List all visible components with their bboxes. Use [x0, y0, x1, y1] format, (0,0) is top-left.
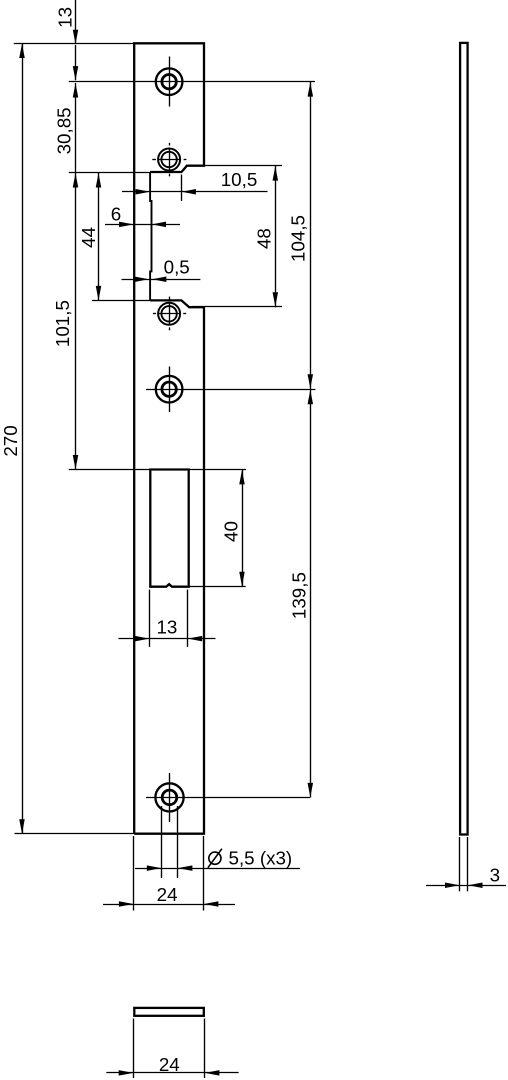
hole H5 horizontal centerline / dimension reference [146, 797, 310, 799]
svg-text:24: 24 [157, 884, 178, 905]
svg-text:13: 13 [54, 7, 75, 28]
svg-text:3: 3 [490, 865, 500, 886]
dimension 139,5: hole H4 to hole H5 [308, 390, 314, 405]
svg-text:6: 6 [111, 203, 121, 224]
svg-text:13: 13 [156, 617, 177, 638]
side view plate bar [460, 43, 468, 835]
dimension 270: overall plate length [19, 44, 25, 59]
hole H1 horizontal centerline / dimension reference [69, 81, 315, 83]
svg-text:139,5: 139,5 [289, 572, 310, 619]
svg-text:101,5: 101,5 [52, 300, 73, 347]
plate lower right outline with notch [134, 300, 204, 833]
dimension 13 top: plate top edge to hole H1 center [14, 43, 134, 45]
svg-text:40: 40 [221, 521, 242, 542]
dimension 44: lip cut height [96, 173, 102, 188]
svg-text:48: 48 [254, 228, 275, 249]
dimension 10,5: lip line to notch reference [122, 191, 268, 193]
svg-text:10,5: 10,5 [221, 169, 258, 190]
hole H4 vertical centerline [169, 367, 171, 413]
hole H1 countersunk top [156, 68, 183, 95]
latch opening [150, 470, 188, 587]
hole H1 vertical centerline [169, 57, 171, 107]
dimension 101,5: cut top edge to latch opening top [69, 172, 150, 174]
dimension 0,5: lip step [122, 279, 201, 281]
dimension 40: latch opening height [189, 469, 246, 471]
strike plate front view outline [134, 43, 204, 833]
hole H3 centerlines [158, 313, 182, 315]
svg-text:0,5: 0,5 [164, 256, 190, 277]
hole H2 [158, 149, 180, 171]
svg-text:44: 44 [78, 227, 99, 248]
hole H2 centerlines [158, 159, 182, 161]
dimension diameter 5,5 x3: screw holes [161, 806, 163, 878]
hole H4 countersunk middle [156, 376, 183, 403]
dimension 13: latch opening width [149, 590, 151, 647]
lip fold line with 0,5 jog [150, 172, 151, 300]
dimension 30,85: hole H1 center to lip cut top edge [73, 83, 79, 98]
dimension 6: plate edge to lip line [105, 224, 180, 226]
svg-text:5,5 (x3): 5,5 (x3) [229, 848, 293, 869]
dimension 24: plate width front view [133, 836, 135, 911]
svg-text:104,5: 104,5 [287, 215, 308, 262]
hole H5 countersunk bottom [155, 783, 183, 811]
hole H4 horizontal centerline / dimension reference [146, 389, 315, 391]
svg-text:24: 24 [159, 1054, 180, 1075]
bottom view plate bar [134, 1008, 204, 1016]
hole H5 vertical centerline [169, 773, 171, 822]
svg-text:270: 270 [0, 425, 21, 456]
svg-text:30,85: 30,85 [54, 107, 75, 154]
dimension 24: plate width bottom view [133, 1019, 135, 1079]
hole H3 [158, 303, 180, 325]
dimension 104,5: hole H1 to hole H4 [308, 82, 314, 97]
dimension 48: notch to notch [205, 165, 282, 167]
dimension 3: plate thickness [459, 837, 461, 891]
diameter symbol [209, 852, 221, 864]
extension line latch opening top to the left [69, 469, 151, 471]
